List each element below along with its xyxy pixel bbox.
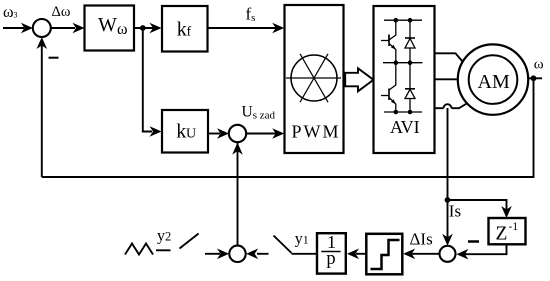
node fs label	[246, 5, 256, 25]
svg-text:k: k	[176, 121, 186, 143]
block kU	[162, 110, 208, 153]
wire Is junction to Z-1	[448, 200, 512, 218]
diode D2 (lower freewheel diode)	[405, 63, 415, 112]
svg-text:Is: Is	[449, 201, 461, 220]
wire junction down to kU	[143, 28, 162, 137]
AVI bottom bus wire	[384, 111, 422, 113]
wire S3 up to S2	[232, 143, 243, 246]
wire Wω to junction	[134, 27, 154, 29]
block Z-1 (delay)	[489, 218, 526, 245]
wire S1 to Wω	[51, 23, 85, 34]
block AVI inverter	[374, 6, 435, 153]
junction dot ω	[531, 75, 537, 81]
AVI middle bus wire	[383, 62, 423, 64]
svg-text:W: W	[98, 14, 117, 36]
wire feedback up into S1	[37, 37, 48, 177]
node Us zad label	[242, 104, 276, 122]
block PWM modulator	[285, 5, 344, 153]
block hysteresis relay	[366, 234, 402, 274]
wire y2 into S3	[205, 249, 229, 260]
wire ω feedback down and across	[42, 78, 534, 177]
wire AVI phase B to motor	[435, 78, 459, 80]
wire sawtooth to switch y2	[156, 249, 171, 251]
summing junction S3	[229, 246, 245, 262]
arrow junction to kf	[150, 23, 162, 34]
svg-text:AM: AM	[478, 71, 510, 93]
block arrow PWM to AVI	[345, 68, 373, 91]
minus sign at S4	[468, 240, 479, 243]
wire AVI phase C to motor with current sensor bump	[435, 103, 468, 108]
svg-text:ω: ω	[117, 21, 128, 38]
svg-text:y2: y2	[157, 228, 171, 245]
AVI junction dots	[394, 18, 413, 114]
summing junction S4	[440, 246, 456, 262]
wire S4 to hysteresis relay	[403, 249, 439, 260]
svg-text:p: p	[326, 249, 335, 269]
svg-text:U: U	[186, 127, 196, 142]
minus sign at S1	[49, 57, 59, 59]
summing junction S1	[33, 19, 51, 37]
svg-text:AVI: AVI	[390, 117, 420, 137]
node Δω label	[52, 4, 71, 20]
motor AM outer circle	[458, 44, 528, 114]
wire kU to summing junction S2	[208, 128, 229, 139]
svg-text:k: k	[177, 18, 187, 40]
svg-text:PWM: PWM	[292, 121, 341, 141]
block Wω (speed controller)	[85, 6, 135, 51]
wire AVI phase A to motor	[435, 53, 463, 61]
motor AM inner circle	[469, 55, 518, 104]
wire y1 into S3	[246, 249, 268, 260]
AVI top bus wire	[384, 19, 422, 21]
wire motor to ω node	[528, 77, 542, 79]
wire relay to 1/p	[347, 249, 366, 260]
diode D1 (upper freewheel diode)	[405, 20, 415, 63]
node ω3 input label	[3, 4, 18, 21]
svg-text:Z: Z	[496, 224, 508, 245]
svg-text:Δω: Δω	[52, 4, 71, 20]
svg-text:f: f	[187, 24, 192, 39]
svg-text:ΔIs: ΔIs	[410, 230, 433, 249]
svg-text:y1: y1	[295, 231, 309, 248]
block 1/p integrator	[317, 232, 346, 274]
wire Z-1 output to S4	[456, 244, 506, 259]
sawtooth carrier symbol	[125, 244, 153, 255]
wire kf to PWM	[208, 23, 285, 34]
wire input to summing junction S1	[3, 23, 33, 34]
switch y1 lever	[274, 236, 292, 254]
transistor Q1 (upper IGBT)	[381, 20, 396, 63]
svg-text:-1: -1	[509, 221, 519, 233]
wire S2 to PWM	[246, 128, 284, 139]
PWM three-phase symbol circle	[286, 54, 341, 102]
summing junction S2	[229, 125, 246, 142]
svg-text:ω: ω	[534, 57, 544, 73]
block kf	[162, 6, 208, 52]
wire current sensor down to Is junction and S4	[442, 108, 453, 246]
wire 1/p output to switch y1	[292, 253, 318, 255]
junction dot after Wω	[140, 25, 146, 31]
junction dot Is	[445, 197, 451, 203]
transistor Q2 (lower IGBT)	[381, 63, 396, 112]
switch y2 lever	[180, 234, 199, 249]
